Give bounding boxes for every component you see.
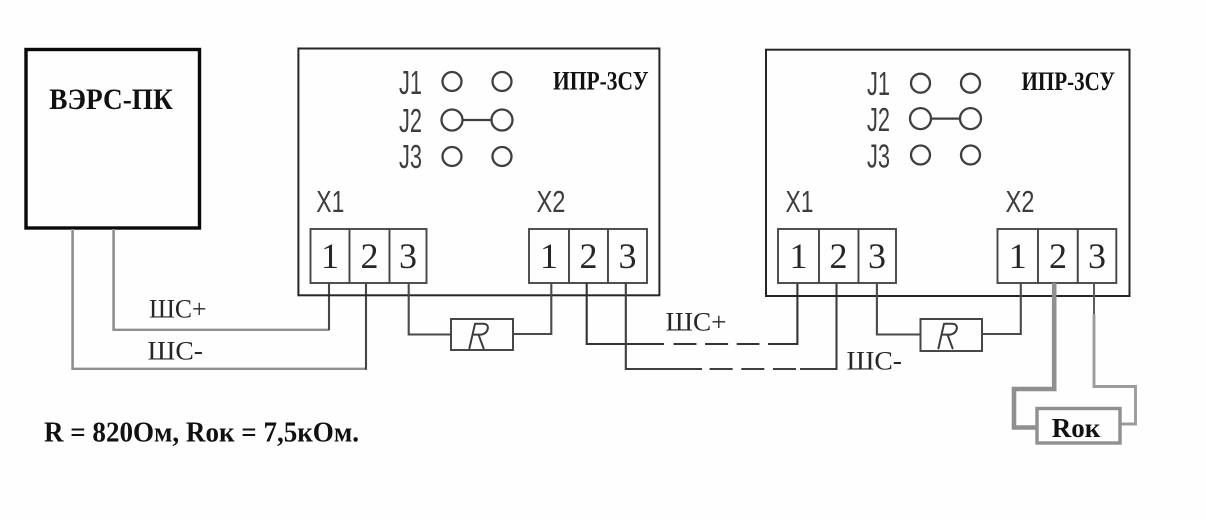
svg-text:ИПР-3СУ: ИПР-3СУ bbox=[1022, 67, 1116, 96]
svg-text:ВЭРС-ПК: ВЭРС-ПК bbox=[49, 83, 173, 116]
X2 pin numbers 1 2 3 (U2) bbox=[1009, 236, 1106, 276]
terminal block X2 (U2) bbox=[998, 229, 1117, 283]
wire: ШС+ rail to detector 1 X1-1 bbox=[112, 329, 329, 331]
svg-text:1: 1 bbox=[790, 236, 808, 276]
jumper J2 pads with shunt installed (U1) bbox=[442, 110, 513, 131]
terminal block X1 (U2) bbox=[778, 229, 896, 283]
jumper J1 pads (U2) bbox=[911, 74, 980, 93]
resistor R1 value label R bbox=[469, 324, 487, 349]
svg-text:J2: J2 bbox=[399, 102, 422, 139]
svg-text:3: 3 bbox=[868, 236, 886, 276]
svg-text:X1: X1 bbox=[786, 185, 814, 219]
svg-text:1: 1 bbox=[1009, 236, 1027, 276]
svg-text:X2: X2 bbox=[537, 185, 566, 219]
detector U2 ИПР-3СУ outline bbox=[766, 50, 1130, 296]
detector U1 ИПР-3СУ outline bbox=[298, 49, 659, 296]
svg-text:Rок: Rок bbox=[1052, 413, 1101, 443]
terminal block X1 (U1) bbox=[311, 229, 427, 283]
wire: U1 X1-3 down to resistor R1 bbox=[409, 283, 451, 335]
svg-text:ШС+: ШС+ bbox=[149, 295, 207, 324]
jumper J3 pads (U1) bbox=[443, 147, 512, 166]
svg-text:X2: X2 bbox=[1006, 185, 1035, 219]
svg-text:J3: J3 bbox=[399, 138, 422, 175]
svg-text:2: 2 bbox=[1049, 236, 1067, 276]
X1 pin numbers 1 2 3 (U1) bbox=[321, 236, 417, 276]
svg-text:X1: X1 bbox=[316, 185, 344, 219]
jumper J2 pads with shunt installed (U2) bbox=[910, 108, 981, 129]
svg-text:3: 3 bbox=[1088, 236, 1106, 276]
svg-text:J3: J3 bbox=[867, 138, 890, 175]
X1 pin numbers 1 2 3 (U2) bbox=[790, 236, 887, 276]
svg-text:ИПР-3СУ: ИПР-3СУ bbox=[553, 67, 649, 96]
svg-text:J1: J1 bbox=[867, 65, 890, 102]
terminating resistor Rок body bbox=[1037, 409, 1120, 444]
resistor R1 body bbox=[451, 319, 513, 350]
svg-text:2: 2 bbox=[830, 236, 848, 276]
svg-text:J2: J2 bbox=[867, 101, 890, 138]
svg-text:ШС+: ШС+ bbox=[666, 308, 727, 337]
svg-text:3: 3 bbox=[399, 236, 417, 276]
resistor R2 body bbox=[921, 319, 983, 351]
svg-text:ШС-: ШС- bbox=[148, 337, 204, 366]
wire: panel right lead down to ШС+ rail bbox=[112, 229, 115, 330]
wire: U2 X2-2 down-left to terminating resistor Rок bbox=[1014, 283, 1054, 428]
svg-text:2: 2 bbox=[580, 236, 598, 276]
svg-text:1: 1 bbox=[321, 236, 339, 276]
wire: resistor R2 to U2 X2-1 bbox=[982, 283, 1021, 334]
wire: resistor R1 to U1 X2-1 bbox=[513, 283, 551, 334]
svg-text:J1: J1 bbox=[399, 64, 422, 101]
jumper J1 pads (U1) bbox=[443, 72, 512, 91]
svg-text:3: 3 bbox=[619, 236, 637, 276]
svg-text:R = 820Ом, Rок = 7,5кОм.: R = 820Ом, Rок = 7,5кОм. bbox=[44, 417, 359, 449]
svg-text:1: 1 bbox=[540, 236, 558, 276]
wire: U1 X2-2 to U2 X1-1 (ШС+ trunk, dashed middle) bbox=[587, 283, 664, 344]
svg-text:ШС-: ШС- bbox=[847, 347, 903, 376]
terminal block X2 (U1) bbox=[529, 229, 647, 283]
wire: U2 X2-3 down-right to terminating resistor Rок bbox=[1093, 283, 1095, 316]
wire: U2 X1-3 down to resistor R2 bbox=[877, 283, 921, 335]
svg-text:2: 2 bbox=[361, 236, 379, 276]
X2 pin numbers 1 2 3 (U1) bbox=[540, 236, 637, 276]
wire: panel left lead down to ШС- rail bbox=[71, 229, 74, 369]
wire: U1 X2-3 to U2 X1-2 (ШС- trunk, dashed middle) bbox=[626, 283, 702, 369]
jumper J3 pads (U2) bbox=[911, 146, 980, 165]
control panel ВЭРС-ПК box bbox=[26, 50, 200, 229]
resistor R2 value label R bbox=[938, 324, 956, 349]
wire: ШС- rail to detector 1 X1-2 bbox=[71, 368, 366, 370]
